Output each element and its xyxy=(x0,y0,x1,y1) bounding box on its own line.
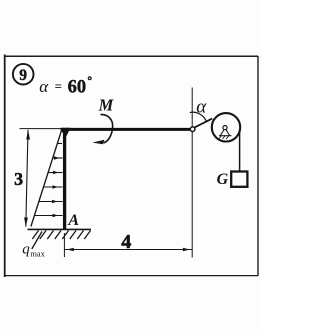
load arrow 5 xyxy=(39,201,63,203)
ground line at A xyxy=(28,228,92,230)
svg-text:α: α xyxy=(39,77,49,96)
svg-text:M: M xyxy=(98,95,115,114)
beam corner fillet xyxy=(61,128,71,136)
q_max leader line xyxy=(32,232,42,250)
dim3 bottom arrowhead xyxy=(24,218,28,227)
vertical reference line through pin xyxy=(191,88,193,258)
load arrow 3 xyxy=(48,172,62,174)
dimension 4 line xyxy=(65,249,192,251)
svg-text:3: 3 xyxy=(14,169,23,189)
dimension 3 extension line (top) xyxy=(20,128,63,130)
load arrow 4 xyxy=(44,186,63,188)
svg-text:4: 4 xyxy=(121,231,131,253)
svg-text:=: = xyxy=(55,79,62,94)
problem number circle 9 xyxy=(13,64,34,85)
angle alpha arc at pin xyxy=(190,112,207,121)
ground hatches xyxy=(32,231,90,240)
pulley support legs xyxy=(220,130,229,136)
pulley axle circle xyxy=(223,126,227,130)
load arrow 2 xyxy=(53,157,63,159)
svg-text:G: G xyxy=(217,171,229,188)
svg-text:q: q xyxy=(22,242,30,258)
dim4 left arrowhead xyxy=(67,248,74,252)
svg-text:60: 60 xyxy=(68,78,87,98)
svg-text:A: A xyxy=(67,212,79,229)
svg-text:max: max xyxy=(30,248,45,258)
vertical beam xyxy=(63,129,66,230)
pin circle at beam end xyxy=(190,127,195,132)
svg-text:9: 9 xyxy=(19,67,27,84)
load arrow 6 xyxy=(35,215,63,217)
load arrow 1 xyxy=(58,143,62,145)
horizontal beam xyxy=(62,128,190,131)
frame border xyxy=(4,55,258,278)
weight G box xyxy=(231,172,247,187)
beam axis extension below ground xyxy=(63,233,65,257)
pulley support ground xyxy=(219,135,232,137)
moment arrowhead xyxy=(92,140,104,145)
rope from pin to pulley xyxy=(195,119,213,128)
dimension 3 line xyxy=(26,130,28,227)
svg-text:α: α xyxy=(196,96,207,117)
moment arc M xyxy=(101,115,113,143)
dim4 right arrowhead xyxy=(183,248,190,252)
pulley circle xyxy=(212,113,240,141)
rope hanging from pulley xyxy=(239,130,241,172)
dim3 top arrowhead xyxy=(26,130,30,140)
load triangle hypotenuse xyxy=(31,131,62,227)
